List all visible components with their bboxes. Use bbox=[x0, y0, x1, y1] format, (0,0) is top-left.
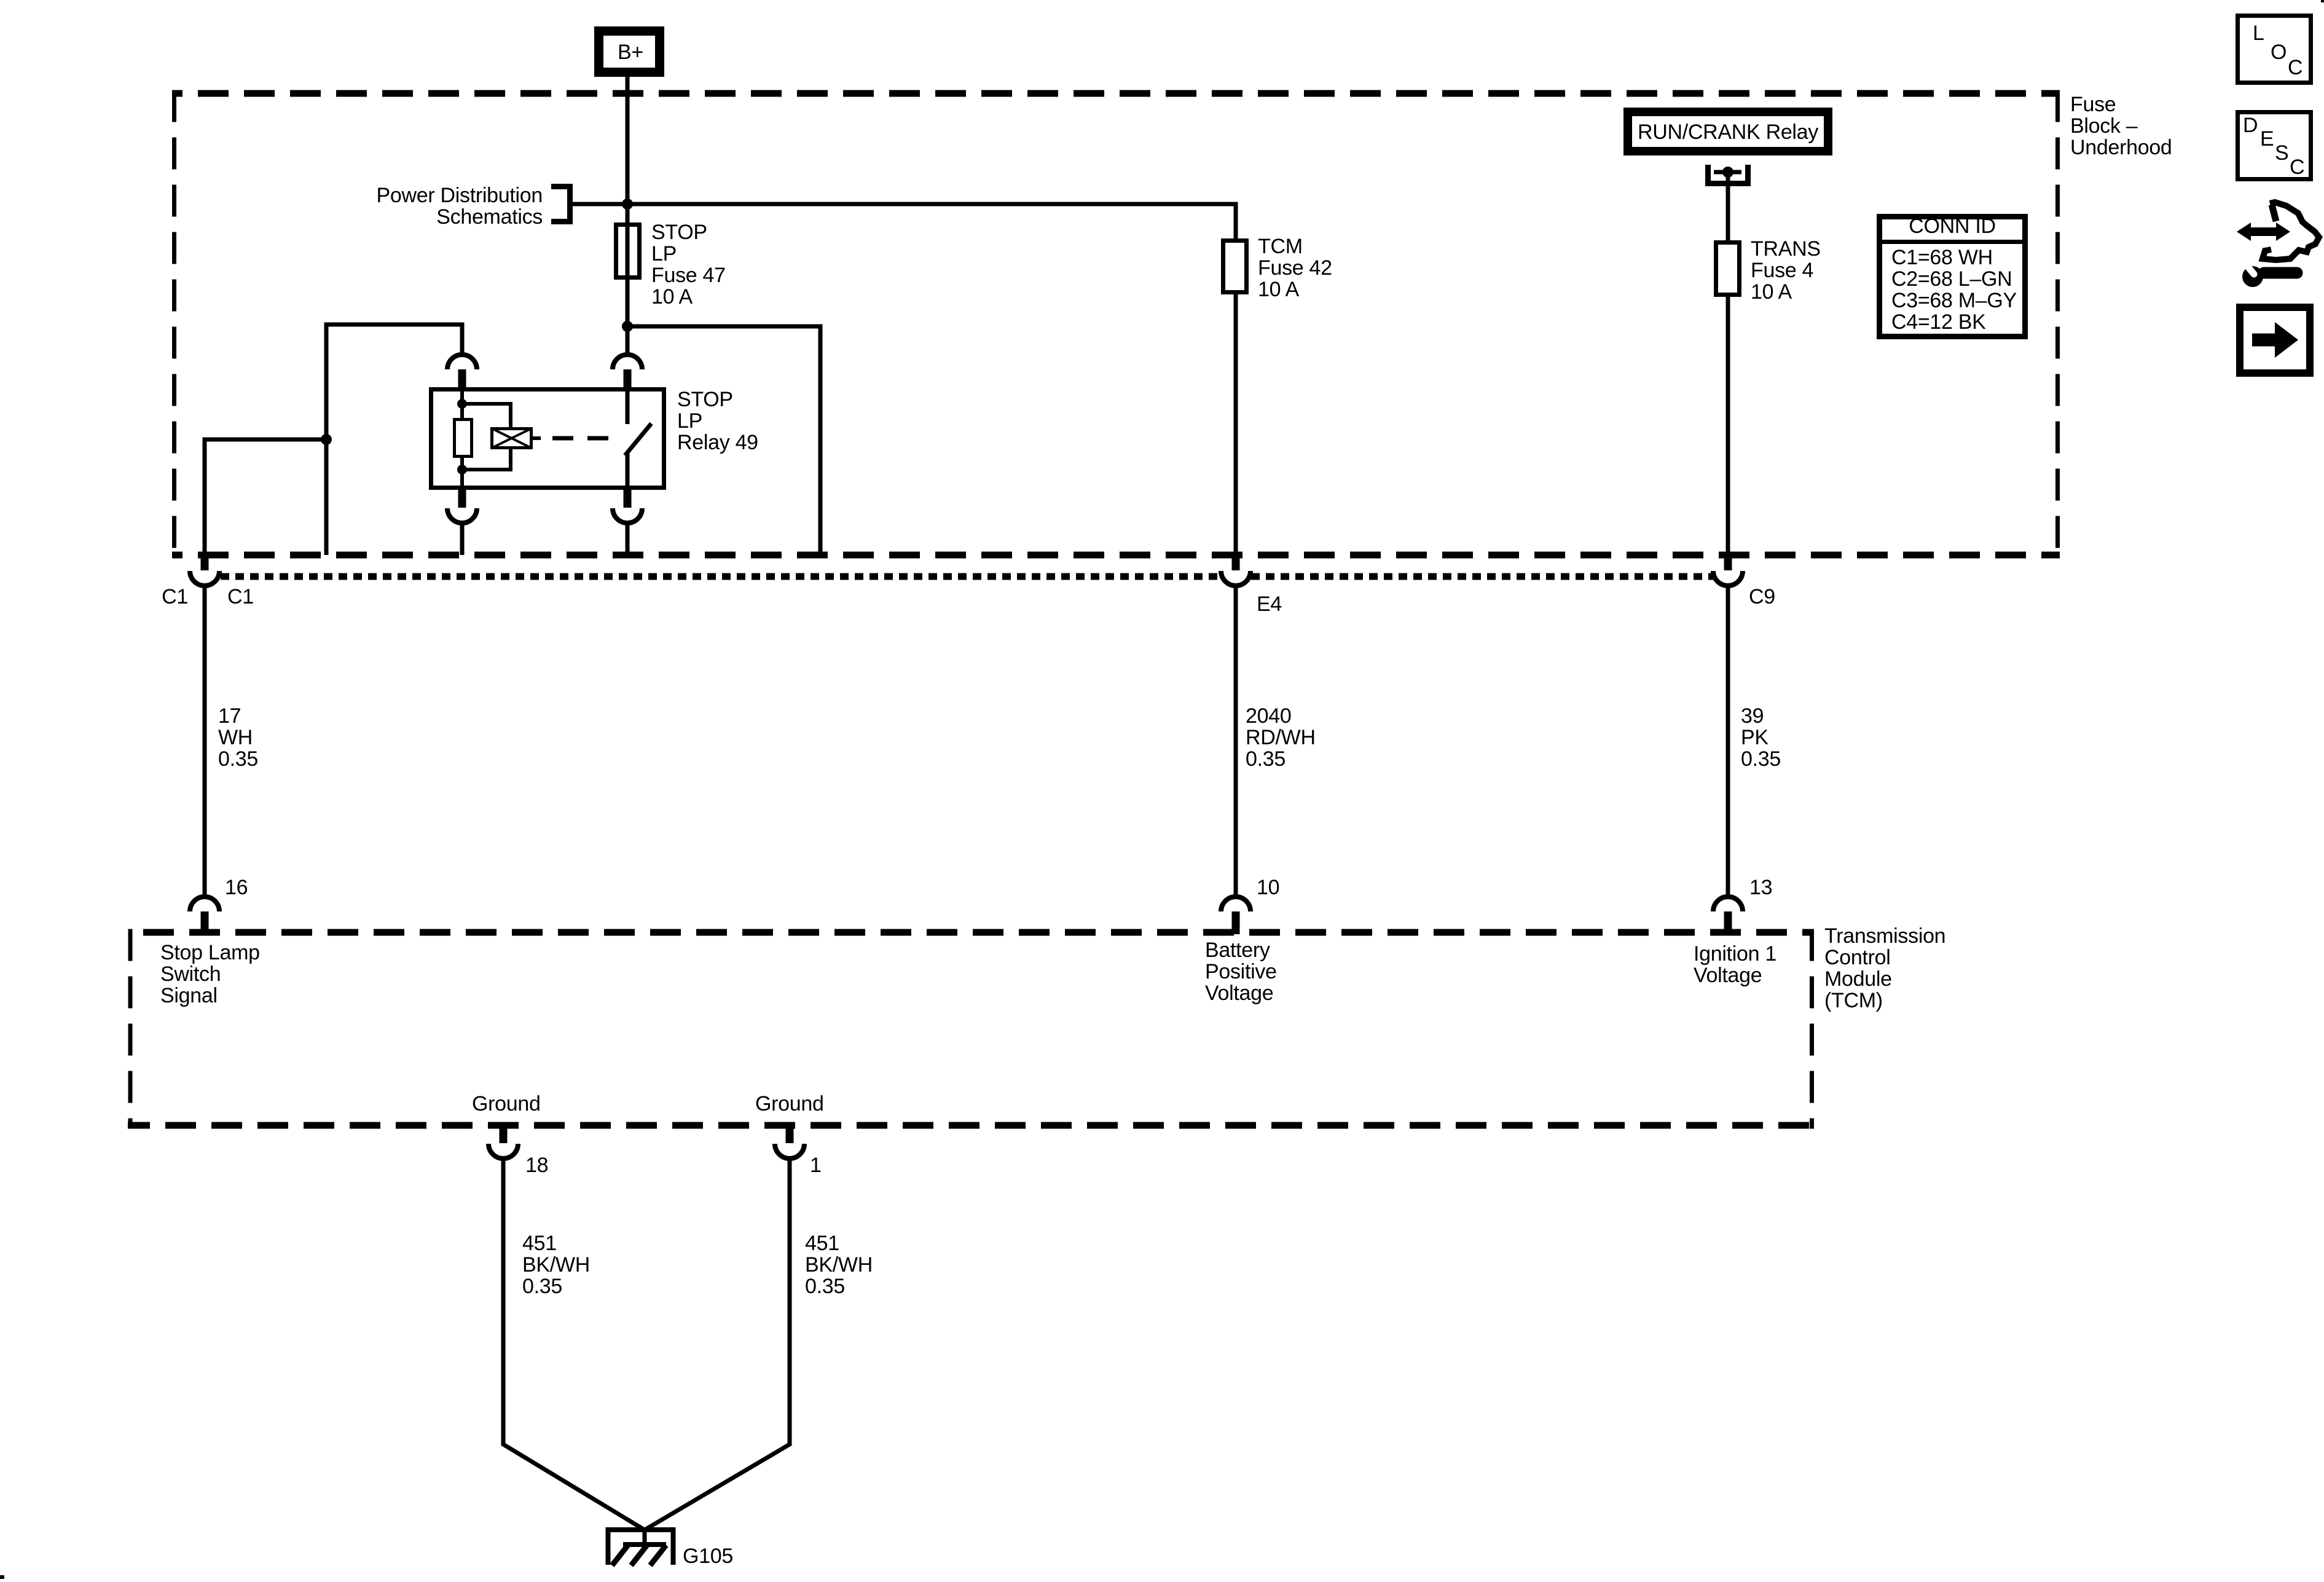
wire: relay coil feed from C1 up to relay coil pin bbox=[205, 325, 462, 555]
svg-text:451BK/WH0.35: 451BK/WH0.35 bbox=[522, 1232, 590, 1298]
svg-text:13: 13 bbox=[1749, 876, 1772, 899]
label box: RUN/CRANK Relay bbox=[1628, 112, 1828, 151]
svg-text:C1=68 WHC2=68 L–GNC3=68 M–GYC4: C1=68 WHC2=68 L–GNC3=68 M–GYC4=12 BK bbox=[1891, 246, 2017, 334]
svg-text:2040RD/WH0.35: 2040RD/WH0.35 bbox=[1246, 704, 1316, 771]
relay K49 body box bbox=[431, 390, 664, 488]
pin 16 connector at TCM bbox=[190, 897, 219, 934]
page artifact top-right corner bbox=[2321, 0, 2324, 2]
svg-text:Power DistributionSchematics: Power DistributionSchematics bbox=[377, 184, 543, 229]
svg-text:16: 16 bbox=[225, 876, 248, 899]
wire: relay coil internal leads bbox=[460, 387, 464, 490]
node: relay coil top junction bbox=[457, 399, 467, 409]
svg-text:Ground: Ground bbox=[755, 1092, 824, 1116]
svg-text:L: L bbox=[2253, 22, 2264, 45]
svg-text:E4: E4 bbox=[1257, 592, 1282, 616]
svg-text:C1: C1 bbox=[227, 585, 254, 608]
wire: circuit 17 WH to TCM pin 16 bbox=[203, 584, 207, 895]
svg-text:Stop LampSwitchSignal: Stop LampSwitchSignal bbox=[160, 941, 260, 1007]
wire: fuse 4 output down to connector C9 bbox=[1726, 294, 1730, 555]
CONN ID table bbox=[1877, 214, 2028, 337]
node: junction below fuse 47 bbox=[622, 321, 633, 332]
svg-text:STOPLPFuse 4710 A: STOPLPFuse 4710 A bbox=[651, 221, 726, 309]
svg-text:C1: C1 bbox=[162, 585, 188, 608]
connector C1 (fuse block to harness) bbox=[190, 552, 219, 586]
TCM dashed border box bbox=[128, 929, 1814, 1129]
resistor: relay coil element bbox=[455, 420, 472, 457]
svg-text:C9: C9 bbox=[1749, 585, 1775, 608]
svg-text:39PK0.35: 39PK0.35 bbox=[1741, 704, 1781, 771]
wire: circuit 39 PK to TCM pin 13 bbox=[1726, 584, 1730, 895]
node: junction of B+ feed and fuse 42 branch bbox=[622, 199, 633, 210]
svg-text:FuseBlock –Underhood: FuseBlock –Underhood bbox=[2070, 93, 2172, 159]
icon: DESC box bbox=[2238, 112, 2311, 179]
svg-text:D: D bbox=[2243, 114, 2258, 137]
svg-text:451BK/WH0.35: 451BK/WH0.35 bbox=[805, 1232, 873, 1298]
svg-text:RUN/CRANK Relay: RUN/CRANK Relay bbox=[1638, 120, 1818, 144]
node: relay coil bottom junction bbox=[457, 465, 467, 474]
relay K49 switch output pin connector (bottom-right) bbox=[613, 489, 642, 555]
fuse block underhood dashed border bbox=[172, 90, 2060, 559]
icon: LOC box bbox=[2238, 16, 2311, 83]
connector E4 bbox=[1221, 552, 1250, 586]
fuse F47 bbox=[616, 225, 640, 278]
wire: bracket to junction and on to Fuse 42 bbox=[573, 204, 1236, 238]
wire: fuse 42 output down to connector E4 bbox=[1234, 292, 1238, 555]
svg-text:S: S bbox=[2275, 141, 2288, 165]
dashed actuator link of relay bbox=[552, 436, 612, 441]
svg-text:1: 1 bbox=[810, 1154, 822, 1177]
relay switch blade bbox=[625, 423, 651, 455]
pin 10 connector at TCM bbox=[1221, 897, 1250, 934]
page artifact bottom-left corner bbox=[0, 1575, 4, 1579]
pin 18 connector at TCM bottom bbox=[489, 1124, 518, 1159]
wire: circuit 451 BK/WH from pin 18 to G105 bbox=[503, 1157, 643, 1529]
svg-text:18: 18 bbox=[525, 1154, 548, 1177]
wire: relay winding parallel branch bbox=[462, 404, 511, 470]
icon: part locator with wrench bbox=[2237, 202, 2319, 287]
fuse F42 bbox=[1223, 241, 1247, 293]
svg-text:TransmissionControlModule(TCM): TransmissionControlModule(TCM) bbox=[1824, 924, 1945, 1012]
svg-text:BatteryPositiveVoltage: BatteryPositiveVoltage bbox=[1205, 939, 1277, 1005]
wire: winding output stub bbox=[532, 436, 541, 440]
wire: circuit 451 BK/WH from pin 1 to G105 bbox=[646, 1157, 790, 1529]
wire: relay switch output lead bbox=[626, 454, 630, 490]
fuse F4 bbox=[1716, 243, 1740, 295]
svg-text:Ignition 1Voltage: Ignition 1Voltage bbox=[1694, 942, 1776, 987]
svg-text:CONN ID: CONN ID bbox=[1909, 214, 1995, 238]
svg-text:C: C bbox=[2290, 155, 2304, 179]
relay coil winding symbol (crossed box) bbox=[492, 428, 532, 448]
wire: fuse 47 output branch to fuse block edge bbox=[627, 326, 820, 555]
svg-text:TRANSFuse 410 A: TRANSFuse 410 A bbox=[1751, 237, 1821, 304]
svg-text:STOPLPRelay 49: STOPLPRelay 49 bbox=[677, 388, 758, 454]
svg-text:17WH0.35: 17WH0.35 bbox=[218, 704, 258, 771]
wire: circuit 2040 RD/WH to TCM pin 10 bbox=[1234, 584, 1238, 895]
svg-text:G105: G105 bbox=[683, 1545, 733, 1568]
relay switch fixed contact bbox=[626, 387, 630, 424]
wire: B+ feed down to Fuse 47 and relay switch contact bbox=[626, 77, 630, 354]
power symbol B+ bbox=[599, 31, 660, 73]
relay K49 coil pin connector (top-left) bbox=[447, 355, 477, 389]
svg-text:B+: B+ bbox=[618, 41, 643, 64]
svg-text:E: E bbox=[2260, 127, 2274, 151]
pin 13 connector at TCM bbox=[1713, 897, 1743, 934]
dotted harness separator line bbox=[221, 573, 1713, 580]
relay K49 switch pin connector (top-right) bbox=[613, 355, 642, 389]
svg-text:Ground: Ground bbox=[472, 1092, 541, 1116]
terminal symbol under RUN/CRANK relay bbox=[1708, 165, 1748, 184]
svg-text:TCMFuse 4210 A: TCMFuse 4210 A bbox=[1258, 235, 1332, 301]
svg-text:O: O bbox=[2271, 41, 2287, 64]
wire: relay terminal to fuse 4 bbox=[1726, 172, 1730, 243]
icon: arrow box bbox=[2240, 307, 2310, 373]
relay K49 coil return pin connector (bottom-left) bbox=[447, 489, 477, 555]
bracket: power distribution schematics reference bbox=[551, 187, 570, 222]
ground symbol G105 bbox=[608, 1530, 673, 1565]
node: junction on coil feed wire bbox=[321, 434, 332, 445]
connector C9 bbox=[1713, 552, 1743, 586]
pin 1 connector at TCM bottom bbox=[775, 1124, 804, 1159]
svg-text:10: 10 bbox=[1257, 876, 1279, 899]
svg-text:C: C bbox=[2288, 56, 2302, 79]
